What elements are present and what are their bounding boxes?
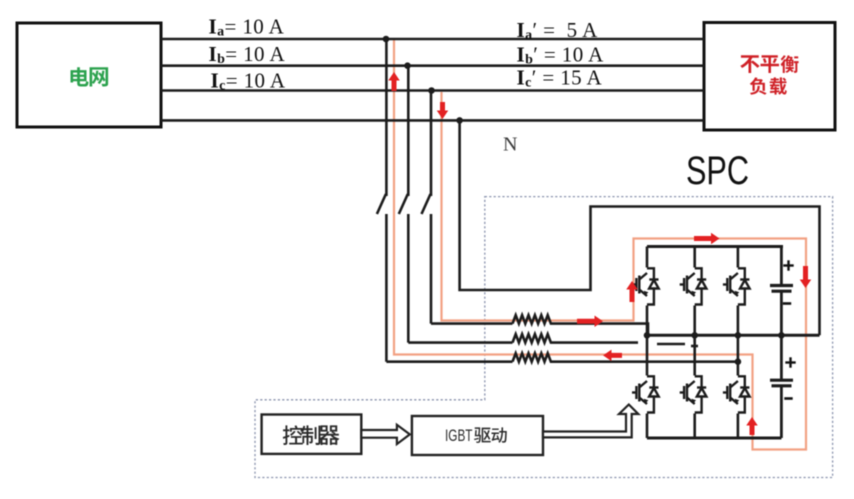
- svg-text:N: N: [503, 134, 517, 156]
- svg-text:IGBT: IGBT: [445, 426, 473, 445]
- svg-text:SPC: SPC: [686, 149, 749, 193]
